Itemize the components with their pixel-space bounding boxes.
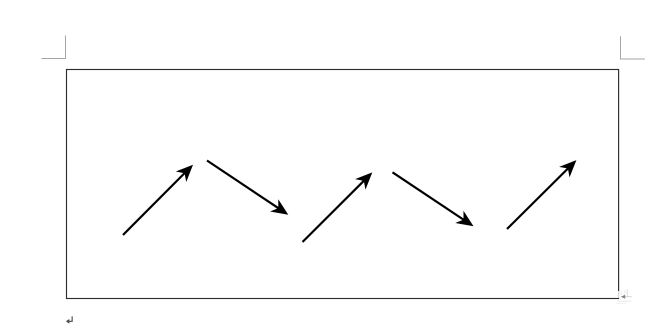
arrow 3 (up-right) shaft xyxy=(303,180,365,242)
top-left margin crop mark xyxy=(42,36,66,59)
arrow 5 (up-right) shaft xyxy=(507,168,569,230)
arrow 3 (up-right) head xyxy=(355,172,372,189)
arrow 2 (down-right) head xyxy=(270,199,288,215)
arrow 4 (down-right) shaft xyxy=(393,172,465,220)
arrow 1 (up-right) shaft xyxy=(123,172,186,235)
faint line-break mark at rectangle bottom-right corner xyxy=(616,289,632,303)
arrow 5 (up-right) head xyxy=(559,160,576,177)
top-right margin crop mark xyxy=(621,36,645,59)
rectangle shape border xyxy=(67,70,619,299)
arrow 2 (down-right) shaft xyxy=(207,161,280,209)
arrow 1 (up-right) head xyxy=(176,165,193,182)
arrow 4 (down-right) head xyxy=(455,211,473,227)
line-break mark (bottom-left, dark) xyxy=(66,316,72,323)
